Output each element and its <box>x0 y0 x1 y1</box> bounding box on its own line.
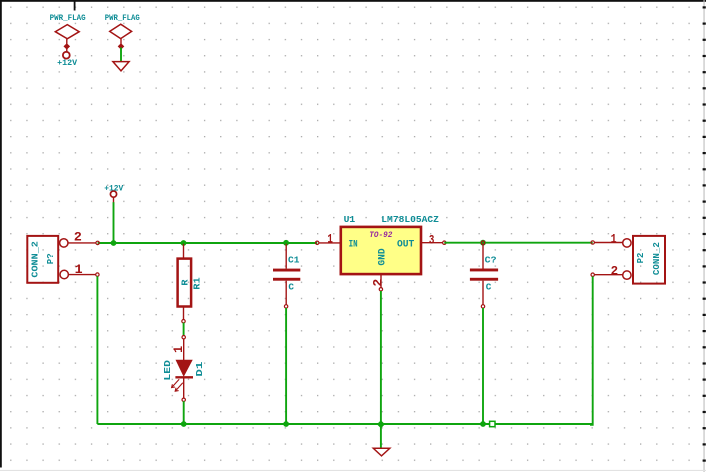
wire U1 GND down <box>380 291 382 424</box>
wire GND stem <box>380 424 382 447</box>
junction at C1 bottom <box>283 421 289 427</box>
pin end circle conn pin1 <box>96 273 99 276</box>
svg-text:PWR_FLAG: PWR_FLAG <box>105 14 140 23</box>
wire end square marker <box>490 421 495 426</box>
junction at +12V drop <box>111 240 117 246</box>
svg-text:LED: LED <box>162 360 173 381</box>
wire left vertical <box>96 276 98 424</box>
junction at C? bottom <box>480 421 486 427</box>
op-amp U1 regulator LM78L05ACZ <box>316 227 446 291</box>
wire +12V drop <box>113 202 115 243</box>
wire main input net <box>98 242 318 244</box>
wire C? to bottom net <box>482 308 484 424</box>
svg-text:2: 2 <box>74 230 82 244</box>
junction at D1 bottom <box>181 421 187 427</box>
svg-text:CONN_2: CONN_2 <box>30 241 41 278</box>
svg-text:C?: C? <box>485 254 497 265</box>
sheet border top <box>0 0 706 2</box>
svg-text:LM78L05ACZ: LM78L05ACZ <box>381 214 439 225</box>
svg-text:R1: R1 <box>193 277 203 290</box>
svg-text:PWR_FLAG: PWR_FLAG <box>50 14 86 23</box>
svg-text:P?: P? <box>45 253 56 264</box>
power flag PF2 (right PWR_FLAG) <box>110 24 132 49</box>
power flag PF1 (left PWR_FLAG) <box>55 25 79 52</box>
svg-text:R: R <box>180 279 190 286</box>
wire PF2 to GND <box>120 48 122 62</box>
svg-text:IN: IN <box>349 239 358 250</box>
svg-text:2: 2 <box>371 279 385 287</box>
svg-text:+12V: +12V <box>57 59 77 68</box>
power symbol +12V (mid) <box>110 191 116 203</box>
junction at C1 top <box>283 240 289 246</box>
sheet border left <box>0 0 2 468</box>
LED D1 <box>175 336 193 402</box>
svg-text:D1: D1 <box>194 361 205 376</box>
junction at GND stem <box>377 420 385 428</box>
svg-text:3: 3 <box>429 234 435 248</box>
wire bottom net <box>97 423 592 425</box>
svg-text:TO-92: TO-92 <box>369 230 392 240</box>
LED emission arrows <box>172 379 183 391</box>
svg-text:U1: U1 <box>344 214 356 225</box>
wire output net <box>444 242 592 244</box>
wire D1 to bottom net <box>183 401 185 424</box>
svg-text:C: C <box>288 282 294 293</box>
wire R1 to D1 <box>183 323 185 336</box>
svg-text:1: 1 <box>172 346 186 353</box>
power symbol +12V (top) <box>63 52 70 59</box>
pin end circle conn pin2 <box>96 241 99 244</box>
svg-text:+12V: +12V <box>104 184 123 193</box>
svg-text:2: 2 <box>611 264 619 278</box>
connector P? (left CONN_2) <box>27 236 96 283</box>
sheet border right tick marks <box>703 6 706 461</box>
svg-text:1: 1 <box>327 233 333 247</box>
capacitor C1 <box>273 244 300 308</box>
svg-text:1: 1 <box>611 232 617 246</box>
cursor tick <box>74 0 76 11</box>
svg-text:1: 1 <box>75 263 83 277</box>
junction at C? top <box>480 240 486 246</box>
svg-text:GND: GND <box>377 248 388 265</box>
svg-text:P2: P2 <box>635 252 646 263</box>
wire right vertical <box>590 276 593 424</box>
ground (bottom) <box>373 448 390 456</box>
svg-text:OUT: OUT <box>397 239 414 250</box>
wire C1 to bottom net <box>285 308 287 424</box>
svg-text:C: C <box>486 282 492 293</box>
junction at R1 top <box>181 240 187 246</box>
ground (top) <box>113 62 129 71</box>
connector P2 (right CONN_2) <box>591 236 665 284</box>
resistor R1 <box>178 244 192 323</box>
capacitor C? <box>470 241 498 308</box>
svg-text:C1: C1 <box>288 254 300 265</box>
svg-text:CONN_2: CONN_2 <box>651 242 662 275</box>
